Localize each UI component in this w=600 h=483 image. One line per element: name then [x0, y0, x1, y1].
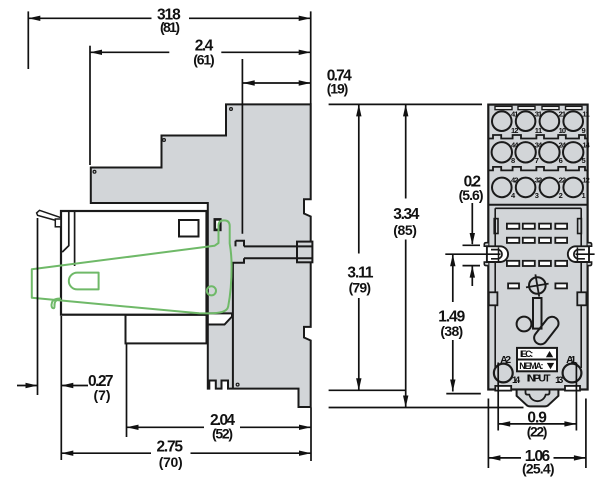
svg-text:11: 11 [535, 126, 542, 135]
svg-text:NEMA:: NEMA: [519, 361, 543, 371]
svg-text:13: 13 [555, 375, 563, 386]
svg-text:42: 42 [511, 176, 518, 185]
svg-text:7: 7 [535, 156, 539, 165]
svg-text:21: 21 [559, 110, 566, 119]
svg-text:3.34: 3.34 [393, 206, 419, 223]
svg-text:(81): (81) [160, 19, 180, 35]
svg-text:(25.4): (25.4) [522, 461, 555, 477]
svg-text:(7): (7) [94, 387, 111, 403]
svg-text:2: 2 [559, 191, 563, 200]
svg-text:(61): (61) [193, 52, 214, 68]
svg-text:6: 6 [559, 156, 563, 165]
svg-text:INPUT: INPUT [527, 372, 551, 384]
svg-text:(5.6): (5.6) [459, 187, 484, 203]
svg-text:(19): (19) [327, 81, 349, 97]
svg-text:(52): (52) [212, 426, 233, 442]
svg-text:(79): (79) [349, 279, 371, 295]
svg-text:(70): (70) [159, 454, 183, 470]
svg-text:41: 41 [511, 110, 518, 119]
svg-text:A1: A1 [566, 354, 576, 366]
svg-text:11: 11 [582, 110, 589, 119]
svg-text:IEC:: IEC: [520, 349, 533, 359]
svg-text:5: 5 [582, 156, 586, 165]
svg-text:1: 1 [582, 191, 586, 200]
svg-text:10: 10 [559, 126, 566, 135]
svg-text:(22): (22) [527, 424, 548, 440]
svg-text:24: 24 [559, 141, 567, 150]
svg-text:12: 12 [582, 176, 589, 185]
svg-text:32: 32 [535, 176, 542, 185]
svg-text:31: 31 [535, 110, 542, 119]
svg-text:2.75: 2.75 [157, 439, 184, 456]
svg-text:3: 3 [535, 191, 539, 200]
svg-text:9: 9 [582, 126, 586, 135]
svg-text:34: 34 [535, 141, 543, 150]
svg-text:(38): (38) [440, 323, 463, 339]
svg-text:12: 12 [511, 126, 518, 135]
svg-text:22: 22 [559, 176, 566, 185]
svg-text:44: 44 [511, 141, 519, 150]
svg-text:(85): (85) [393, 222, 417, 238]
svg-text:8: 8 [511, 156, 515, 165]
svg-text:14: 14 [582, 141, 590, 150]
svg-text:A2: A2 [500, 354, 511, 366]
svg-text:14: 14 [512, 375, 521, 386]
